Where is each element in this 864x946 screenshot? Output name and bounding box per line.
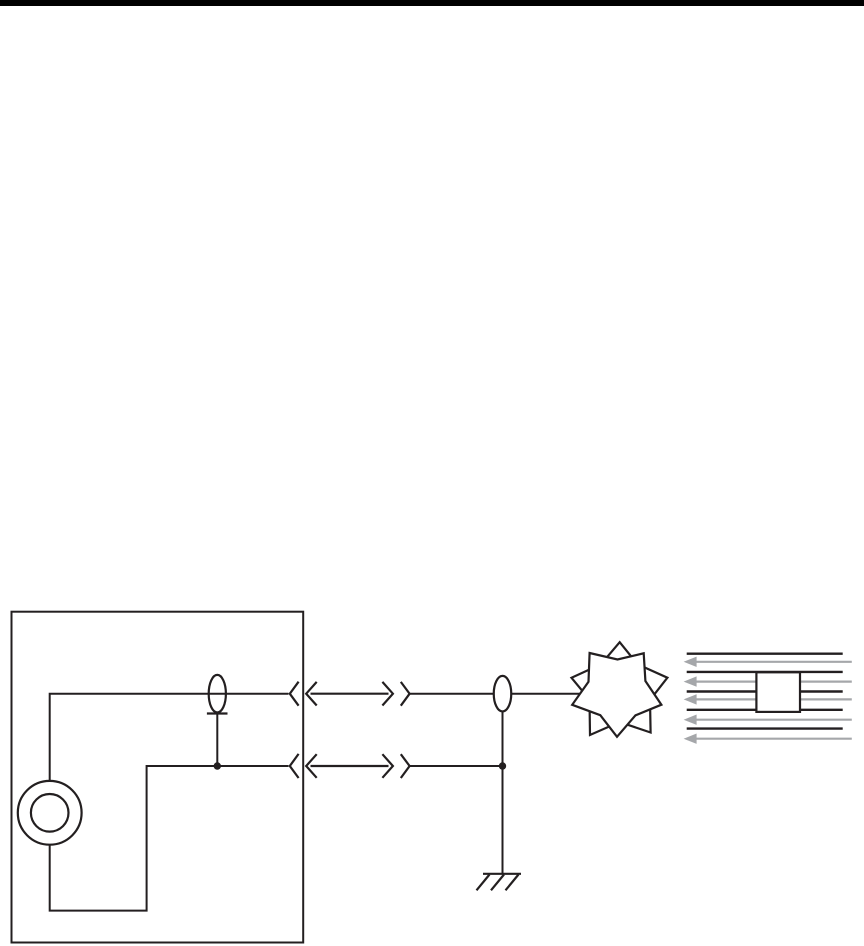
wire: lower line from connector to ground junction xyxy=(410,765,503,767)
noise field graphic: black line 1 xyxy=(687,653,843,655)
wire: motor bottom loop to lower signal line xyxy=(50,766,289,911)
connector chevron upper-left xyxy=(290,682,299,706)
wire: motor top to upper signal line xyxy=(50,694,289,782)
ferrite core L1 (ellipse on upper wire inside box) xyxy=(209,675,226,713)
ground symbol: hatch 3 xyxy=(506,875,519,891)
cable arrow upper: right open head xyxy=(382,682,393,706)
noise field graphic: gray arrow 5 xyxy=(684,734,852,744)
ground symbol: hatch 2 xyxy=(491,875,504,891)
tick below ferrite core L1 xyxy=(207,712,228,714)
junction dot on lower wire inside box xyxy=(214,762,221,769)
ground symbol: hatch 1 xyxy=(477,875,490,891)
noise field graphic: gray arrow 1 xyxy=(684,657,852,667)
junction dot at shield/ground node xyxy=(499,762,506,769)
noise field graphic: gray arrow 3 xyxy=(684,694,852,704)
noise field graphic: black line 2 xyxy=(687,671,843,673)
ferrite core L2 (ellipse on upper wire outside box) xyxy=(494,676,512,712)
noise burst star (back star) xyxy=(572,642,668,735)
connector chevron lower-right xyxy=(401,754,410,778)
noise field graphic: black line 4 xyxy=(687,709,843,711)
wire: ferrite core L2 to noise burst xyxy=(511,693,586,695)
top black header bar xyxy=(0,0,864,6)
noise field graphic: gray arrow 2 xyxy=(684,676,852,686)
wire: ferrite core L1 down to junction xyxy=(216,713,218,767)
cable arrow lower: shaft xyxy=(311,765,389,767)
motor M1 inner circle xyxy=(31,794,69,832)
wire: upper line from connector to ferrite core L2 xyxy=(410,693,494,695)
connector chevron upper-right xyxy=(401,682,410,706)
noise source block (white square over lines) xyxy=(756,672,800,712)
cable arrow lower: left open head xyxy=(306,754,317,778)
noise field graphic: black line 5 xyxy=(687,727,843,729)
noise field graphic: gray arrow 4 xyxy=(684,715,852,725)
cable arrow lower: right open head xyxy=(382,754,393,778)
ground symbol: horizontal bar xyxy=(483,873,521,875)
enclosure box (servo amplifier cabinet) xyxy=(12,612,304,943)
motor M1 (double circle) outer circle xyxy=(18,781,82,845)
noise field graphic: black line 3 xyxy=(687,690,843,692)
wire: shield drop from ferrite core L2 to ground xyxy=(502,711,504,874)
connector chevron lower-left xyxy=(290,754,299,778)
cable arrow upper: left open head xyxy=(306,682,317,706)
noise burst star (front star) xyxy=(572,653,661,737)
cable arrow upper: shaft xyxy=(311,693,389,695)
